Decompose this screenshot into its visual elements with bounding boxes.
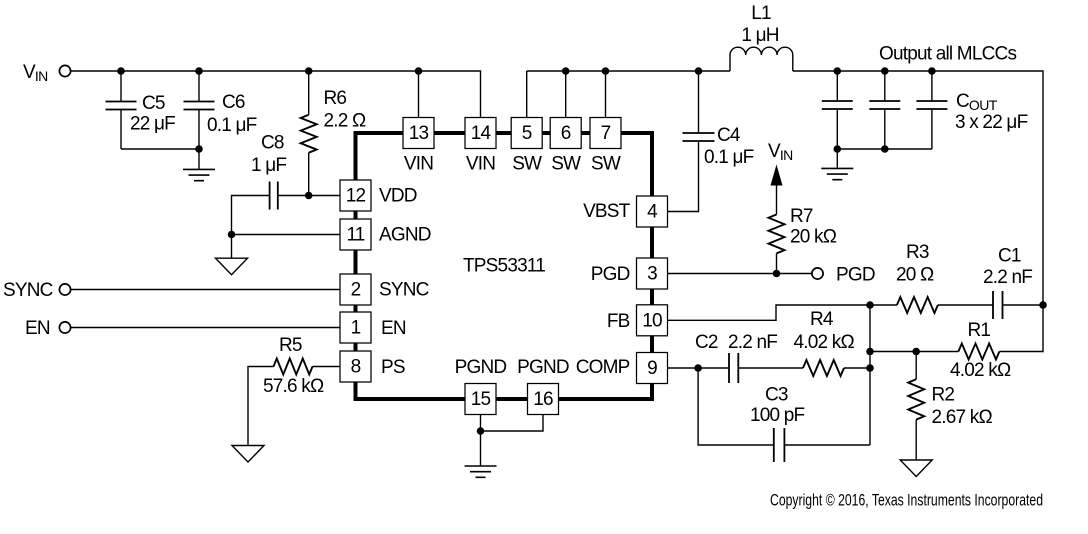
ground (arrow) analog xyxy=(216,258,248,275)
capacitor C1 2.2nF xyxy=(983,246,1043,320)
junction FB node xyxy=(866,301,874,309)
svg-text:VDD: VDD xyxy=(379,186,417,207)
wire pin16 down xyxy=(481,415,544,432)
junction input cap gnd node xyxy=(195,145,203,153)
svg-text:1: 1 xyxy=(351,318,361,339)
resistor R7 20k xyxy=(769,183,837,274)
svg-text:2.2 nF: 2.2 nF xyxy=(728,332,777,353)
svg-text:SW: SW xyxy=(591,154,621,175)
wire pin15 down xyxy=(480,415,482,432)
ground (arrow) R5 xyxy=(232,446,264,463)
capacitor COUT #1 xyxy=(822,71,853,149)
junction FB vertical / R4 xyxy=(866,364,874,372)
svg-text:57.6 kΩ: 57.6 kΩ xyxy=(263,376,324,397)
svg-text:VIN: VIN xyxy=(23,62,48,84)
junction Cout gnd node2 xyxy=(881,145,889,153)
svg-text:11: 11 xyxy=(346,225,364,246)
svg-text:22 μF: 22 μF xyxy=(130,114,175,135)
svg-text:15: 15 xyxy=(471,389,491,410)
junction VIN rail / R6 xyxy=(305,67,313,75)
terminal EN input xyxy=(59,322,70,333)
svg-text:VBST: VBST xyxy=(583,201,631,222)
svg-text:2: 2 xyxy=(351,280,361,301)
op-amp U1 IC TPS53311 body xyxy=(356,133,653,399)
junction R1 / R2 tap xyxy=(912,348,920,356)
resistor R1 4.02k xyxy=(870,320,1011,381)
svg-text:L1: L1 xyxy=(751,3,771,24)
svg-text:PGND: PGND xyxy=(517,357,569,378)
wire SYNC xyxy=(71,289,340,291)
svg-text:0.1 μF: 0.1 μF xyxy=(207,115,257,136)
wire EN xyxy=(71,327,340,329)
svg-text:PGD: PGD xyxy=(591,264,630,285)
junction PGND node xyxy=(477,427,485,435)
pin 7 box xyxy=(590,118,621,149)
svg-text:C1: C1 xyxy=(998,246,1021,267)
junction Cout gnd node1 xyxy=(834,145,842,153)
svg-text:COMP: COMP xyxy=(576,357,630,378)
svg-text:5: 5 xyxy=(522,123,532,144)
svg-text:2.2 nF: 2.2 nF xyxy=(983,267,1032,288)
capacitor C8 1uF xyxy=(232,133,287,235)
wire pin6 up xyxy=(565,71,567,118)
svg-text:16: 16 xyxy=(533,389,553,410)
wire COMP line xyxy=(668,367,699,369)
svg-text:R3: R3 xyxy=(906,242,929,263)
pin 14 box xyxy=(465,118,496,149)
pin 12 box xyxy=(340,180,371,211)
pin 15 box xyxy=(465,384,496,415)
svg-text:SW: SW xyxy=(512,154,542,175)
resistor R2 2.67k xyxy=(908,352,992,461)
wire FB vertical xyxy=(869,305,871,445)
svg-text:Output all MLCCs: Output all MLCCs xyxy=(879,44,1016,65)
svg-text:R7: R7 xyxy=(790,206,813,227)
svg-text:4: 4 xyxy=(647,202,658,223)
pin 2 box xyxy=(340,274,371,305)
svg-text:9: 9 xyxy=(647,358,657,379)
svg-text:VIN: VIN xyxy=(466,154,495,175)
wire VDD line xyxy=(278,195,340,197)
wire AGND to ground xyxy=(231,235,233,259)
junction VIN rail / C5 xyxy=(117,67,125,75)
junction VOUT rail / Cout3 xyxy=(928,67,936,75)
svg-text:13: 13 xyxy=(409,123,429,144)
wire VOUT drop to R1 xyxy=(999,305,1043,352)
svg-text:PGND: PGND xyxy=(455,357,507,378)
svg-text:R5: R5 xyxy=(279,335,302,356)
junction VIN rail / C6 xyxy=(195,67,203,75)
svg-text:2.2 Ω: 2.2 Ω xyxy=(324,111,366,132)
svg-text:3 x 22 μF: 3 x 22 μF xyxy=(955,112,1028,133)
pin 8 box xyxy=(340,351,371,382)
svg-text:C8: C8 xyxy=(261,133,284,154)
capacitor C2 2.2nF xyxy=(695,332,803,383)
pin 13 box xyxy=(403,118,434,149)
inductor L1 1uH xyxy=(730,3,793,71)
svg-text:100 pF: 100 pF xyxy=(750,405,805,426)
svg-text:12: 12 xyxy=(346,186,366,207)
junction C1 / VOUT drop xyxy=(1039,301,1047,309)
capacitor C4 0.1uF xyxy=(668,71,754,212)
ground (earth) output xyxy=(821,168,853,179)
resistor R6 2.2 ohm xyxy=(301,71,366,196)
svg-text:0.1 μF: 0.1 μF xyxy=(704,147,754,168)
junction COMP node xyxy=(694,364,702,372)
resistor R3 20 ohm xyxy=(870,242,993,313)
wire PGND to ground xyxy=(480,431,482,466)
wire VIN rail xyxy=(70,70,480,72)
junction SW rail / pin7 xyxy=(602,67,610,75)
svg-text:COUT: COUT xyxy=(956,91,998,113)
junction SW rail / pin6 xyxy=(562,67,570,75)
pin 11 box xyxy=(340,219,371,250)
capacitor C5 xyxy=(106,71,176,149)
wire Cout to ground xyxy=(836,149,838,168)
terminal PGD output xyxy=(812,268,823,279)
terminal VIN input xyxy=(59,65,70,76)
svg-text:R4: R4 xyxy=(810,309,834,330)
svg-text:2.67 kΩ: 2.67 kΩ xyxy=(932,407,993,428)
junction R6 / VDD line xyxy=(305,192,313,200)
svg-text:20 Ω: 20 Ω xyxy=(896,265,934,286)
svg-text:20 kΩ: 20 kΩ xyxy=(790,227,837,248)
junction VOUT rail / Cout2 xyxy=(881,67,889,75)
svg-text:C5: C5 xyxy=(142,93,165,114)
svg-text:EN: EN xyxy=(25,318,50,339)
wire PGD line xyxy=(668,273,813,275)
svg-text:4.02 kΩ: 4.02 kΩ xyxy=(794,332,855,353)
svg-text:R6: R6 xyxy=(324,88,347,109)
junction C8 / AGND node xyxy=(228,231,236,239)
pin 10 box xyxy=(637,305,668,336)
svg-text:1 μH: 1 μH xyxy=(741,25,778,46)
pin 4 box xyxy=(637,196,668,227)
svg-text:14: 14 xyxy=(471,123,492,144)
pin 6 box xyxy=(550,118,581,149)
svg-text:VIN: VIN xyxy=(404,154,433,175)
svg-text:Copyright © 2016, Texas Instru: Copyright © 2016, Texas Instruments Inco… xyxy=(770,491,1043,510)
svg-text:C2: C2 xyxy=(695,332,718,353)
wire pin13 to VIN rail xyxy=(418,71,420,118)
junction VOUT rail / Cout1 xyxy=(834,67,842,75)
svg-text:R2: R2 xyxy=(932,385,955,406)
terminal SYNC input xyxy=(59,284,70,295)
junction PGD / R7 xyxy=(773,270,781,278)
svg-text:PGD: PGD xyxy=(836,265,875,286)
wire AGND line xyxy=(232,234,341,236)
svg-text:C4: C4 xyxy=(717,125,741,146)
wire C5 bottom to C6 bottom xyxy=(121,148,199,150)
ground (earth) input xyxy=(183,169,215,180)
svg-text:AGND: AGND xyxy=(379,225,431,246)
svg-text:7: 7 xyxy=(601,123,611,144)
capacitor COUT #2 xyxy=(869,71,900,149)
svg-text:EN: EN xyxy=(381,318,406,339)
wire to input ground xyxy=(198,149,200,169)
pin 1 box xyxy=(340,312,371,343)
capacitor C3 100pF xyxy=(698,368,870,462)
ground (arrow) R2 xyxy=(900,460,932,477)
ground (earth) power xyxy=(465,466,497,477)
svg-text:SYNC: SYNC xyxy=(3,280,53,301)
wire FB line xyxy=(668,305,871,320)
capacitor C6 xyxy=(184,71,257,149)
svg-text:C3: C3 xyxy=(765,385,788,406)
pin 5 box xyxy=(511,118,542,149)
wire pin14 to VIN rail xyxy=(480,71,481,118)
svg-text:C6: C6 xyxy=(222,92,245,113)
pin 3 box xyxy=(637,258,668,289)
svg-text:4.02 kΩ: 4.02 kΩ xyxy=(950,360,1011,381)
svg-text:R1: R1 xyxy=(968,320,991,341)
svg-text:SYNC: SYNC xyxy=(379,280,429,301)
junction R1 / FB vertical xyxy=(866,348,874,356)
svg-text:3: 3 xyxy=(647,264,657,285)
wire pin7 up xyxy=(605,71,607,118)
capacitor COUT #3 xyxy=(916,71,947,149)
wire pin5 up xyxy=(526,71,528,118)
svg-text:TPS53311: TPS53311 xyxy=(463,256,545,277)
resistor R5 57.6k xyxy=(248,335,340,446)
junction SW rail / C4 xyxy=(695,67,703,75)
svg-text:10: 10 xyxy=(642,311,662,332)
svg-text:6: 6 xyxy=(561,123,571,144)
svg-text:8: 8 xyxy=(351,357,361,378)
wire VOUT rail xyxy=(793,71,1043,305)
wire SW rail xyxy=(527,70,730,72)
svg-text:SW: SW xyxy=(551,154,581,175)
svg-text:PS: PS xyxy=(381,357,405,378)
svg-text:FB: FB xyxy=(607,311,630,332)
VIN reference arrow xyxy=(771,165,783,186)
junction VIN rail / pin13 xyxy=(415,67,423,75)
pin 16 box xyxy=(528,384,559,415)
svg-text:VIN: VIN xyxy=(768,141,793,163)
svg-text:1 μF: 1 μF xyxy=(251,155,286,176)
resistor R4 4.02k xyxy=(794,309,871,376)
wire Cout bottom rail xyxy=(837,148,932,150)
pin 9 box xyxy=(637,353,668,384)
